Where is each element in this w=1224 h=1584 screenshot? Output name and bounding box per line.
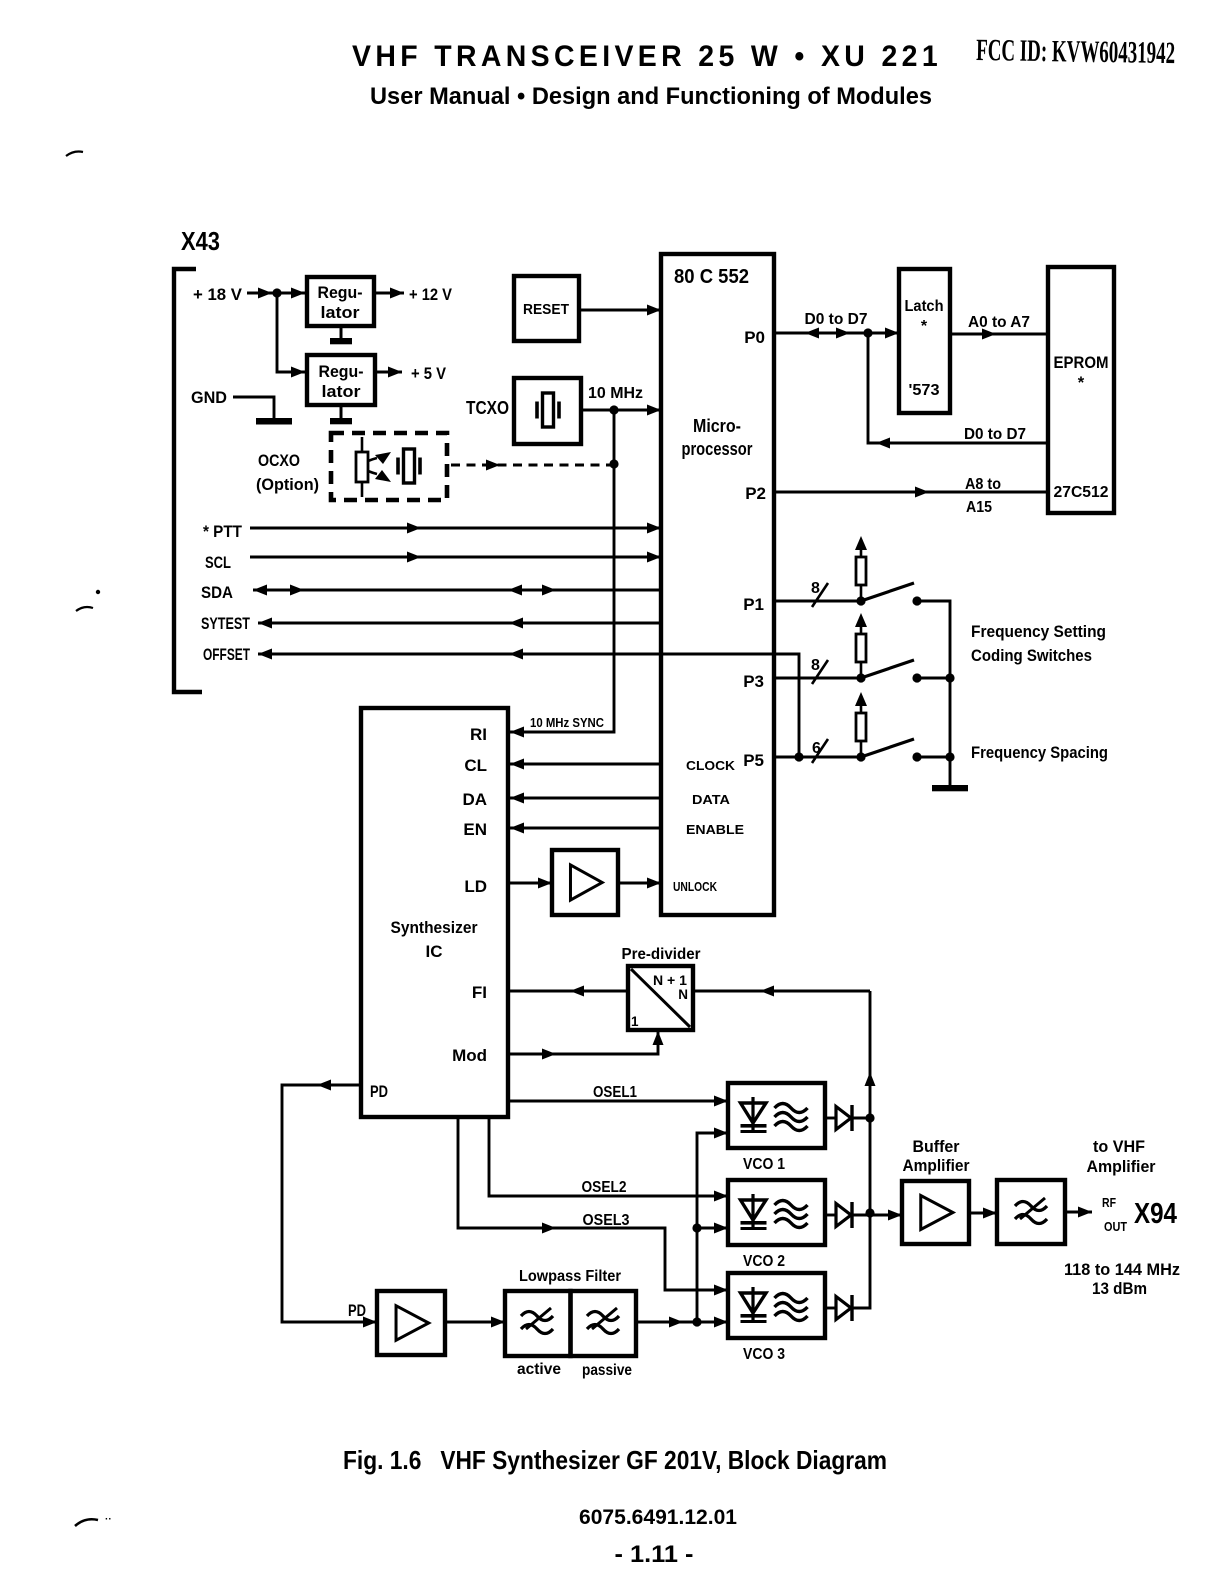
wire pre-divider to FI — [508, 990, 628, 993]
wire OFFSET to P5 — [258, 654, 799, 757]
node J10 common-P5 junction — [945, 752, 954, 761]
svg-text:IC: IC — [426, 942, 443, 961]
wire 10 MHz SYNC — [510, 410, 614, 732]
node J11 tuning junction VCO3 — [692, 1317, 701, 1326]
buffer amplifier U10 box — [902, 1181, 969, 1244]
diode D3 — [825, 1307, 836, 1310]
svg-text:Fig. 1.6 VHF Synthesizer GF: Fig. 1.6 VHF Synthesizer GF 201V, Block … — [343, 1445, 887, 1475]
OCXO crystal Y2 — [404, 449, 415, 483]
TCXO crystal Y1 — [543, 393, 554, 427]
wire SDA bidirectional — [253, 589, 661, 592]
lowpass filter passive box — [571, 1291, 637, 1356]
ground under regulator U3 — [340, 405, 343, 418]
svg-text:VCO 3: VCO 3 — [743, 1346, 785, 1363]
svg-text:- 1.11 -: - 1.11 - — [615, 1541, 694, 1568]
svg-text:VCO 1: VCO 1 — [743, 1156, 785, 1173]
TCXO box — [514, 378, 581, 444]
svg-text:Micro-: Micro- — [693, 415, 741, 436]
svg-text:* PTT: * PTT — [203, 522, 243, 541]
svg-text:lator: lator — [322, 382, 361, 401]
svg-text:SDA: SDA — [201, 583, 233, 602]
scan speck mid-left — [76, 607, 93, 611]
wire DATA to DA — [510, 797, 661, 800]
wire PD amp to lowpass — [445, 1321, 505, 1324]
microprocessor U1 80C552 box — [661, 254, 774, 915]
scan speck bottom-left — [75, 1519, 98, 1526]
svg-text:FI: FI — [472, 983, 487, 1002]
OCXO heater element — [361, 437, 364, 452]
latch U4 box — [899, 269, 950, 413]
wire buffer to output filter — [969, 1212, 997, 1215]
wire P1 bus — [774, 600, 861, 603]
lowpass filter active box — [505, 1291, 571, 1356]
wire P5 bus — [774, 756, 861, 759]
svg-text:RESET: RESET — [523, 301, 569, 318]
svg-text:13 dBm: 13 dBm — [1092, 1279, 1147, 1298]
svg-text:OSEL3: OSEL3 — [583, 1212, 630, 1229]
svg-text:Synthesizer: Synthesizer — [391, 918, 478, 937]
svg-text:Regu-: Regu- — [318, 283, 363, 302]
node J7 P3 junction — [856, 673, 865, 682]
regulator U3 (+5V) — [307, 355, 375, 405]
svg-text:passive: passive — [582, 1362, 632, 1379]
node J14 VCO output junction — [865, 1208, 874, 1217]
svg-text:Latch: Latch — [905, 298, 944, 315]
node J5 OFFSET-P5 junction — [794, 752, 803, 761]
svg-text:SYTEST: SYTEST — [201, 614, 250, 633]
svg-text:OUT: OUT — [1104, 1220, 1127, 1234]
svg-text:Mod: Mod — [452, 1046, 487, 1065]
node J3 10MHz junction — [609, 405, 618, 414]
node J9 P5 junction — [856, 752, 865, 761]
svg-text:D0 to D7: D0 to D7 — [805, 311, 868, 328]
svg-text:CLOCK: CLOCK — [686, 758, 736, 773]
svg-text:D0 to D7: D0 to D7 — [964, 426, 1026, 443]
svg-text:TCXO: TCXO — [466, 398, 509, 418]
svg-text:LD: LD — [464, 877, 487, 896]
svg-text:CL: CL — [464, 756, 487, 775]
ground under regulator U2 — [340, 326, 343, 338]
resistor R2 pull-up — [855, 613, 867, 627]
svg-text:SCL: SCL — [205, 553, 231, 572]
svg-text:X43: X43 — [181, 226, 220, 256]
VCO1 varactor — [751, 1097, 754, 1130]
wire +18V to regulator U3 — [277, 293, 305, 372]
svg-text:to VHF: to VHF — [1093, 1137, 1145, 1156]
switch S1 — [861, 583, 914, 601]
svg-text:PD: PD — [348, 1301, 366, 1320]
svg-text:*: * — [921, 318, 928, 335]
svg-text:P3: P3 — [743, 672, 764, 691]
svg-text:27C512: 27C512 — [1054, 484, 1109, 501]
svg-text:EPROM: EPROM — [1054, 354, 1109, 372]
wire PD feedback — [282, 1085, 377, 1322]
svg-text:+ 5 V: + 5 V — [411, 364, 447, 383]
svg-text:ENABLE: ENABLE — [686, 822, 744, 837]
svg-text:VHF TRANSCEIVER 25 W • XU 221: VHF TRANSCEIVER 25 W • XU 221 — [352, 40, 942, 73]
svg-text:GND: GND — [191, 388, 227, 407]
switch S2 — [861, 660, 914, 678]
svg-text:FCC ID: KVW60431942: FCC ID: KVW60431942 — [976, 32, 1176, 70]
bus width 6 marker P5 — [812, 739, 828, 763]
svg-text:UNLOCK: UNLOCK — [673, 879, 717, 894]
svg-text:8: 8 — [811, 580, 820, 597]
svg-text:+ 18 V: + 18 V — [193, 285, 243, 304]
svg-text:Buffer: Buffer — [913, 1138, 961, 1156]
svg-text:118 to 144 MHz: 118 to 144 MHz — [1064, 1260, 1180, 1279]
wire SYTEST — [258, 622, 661, 625]
RESET box — [514, 276, 579, 341]
svg-text:RF: RF — [1102, 1196, 1116, 1210]
wire +18V to regulators — [247, 292, 307, 295]
wire VCO bus to divider vertical — [869, 991, 872, 1213]
pre-divider diagonal — [631, 969, 690, 1027]
wire D0-D7 EPROM to P0 — [868, 333, 1048, 443]
svg-text:EN: EN — [463, 820, 487, 839]
ground switches common — [932, 785, 968, 791]
svg-text:80 C 552: 80 C 552 — [674, 265, 749, 288]
svg-text:Regu-: Regu- — [319, 362, 364, 381]
resistor R1 pull-up — [855, 536, 867, 550]
VCO3 box — [728, 1273, 825, 1338]
VCO1 coil waves — [775, 1104, 808, 1113]
node J4 data bus junction — [863, 328, 872, 337]
svg-text:active: active — [517, 1361, 561, 1378]
VCO3 varactor — [751, 1287, 754, 1320]
wire P3 bus — [774, 677, 861, 680]
wire tuning bus vertical — [697, 1133, 728, 1322]
wire RF OUT — [1065, 1211, 1092, 1214]
wire P0 data bus — [774, 332, 899, 335]
VCO2 box — [728, 1180, 825, 1245]
diode D1 — [825, 1117, 836, 1120]
wire OCXO dashed output — [451, 464, 610, 467]
node J8 common-P3 junction — [945, 673, 954, 682]
node J6 P1 junction — [856, 596, 865, 605]
svg-text:Pre-divider: Pre-divider — [622, 946, 701, 963]
node J1 +18V junction — [272, 288, 281, 297]
regulator U2 (+12V) — [307, 277, 374, 326]
svg-text:*: * — [1078, 374, 1085, 392]
svg-text:OFFSET: OFFSET — [203, 645, 250, 664]
output filter FL1 box — [997, 1180, 1065, 1244]
connector X43 bracket — [174, 269, 202, 692]
wire GND — [233, 397, 274, 418]
wire RESET to microprocessor — [579, 309, 661, 312]
wire +5V output — [375, 371, 402, 374]
svg-text:Lowpass Filter: Lowpass Filter — [519, 1268, 621, 1285]
svg-text:A15: A15 — [966, 499, 992, 516]
wire A0-A7 latch to EPROM — [950, 333, 1048, 336]
node J12 tuning junction VCO2 — [692, 1223, 701, 1232]
wire SCL — [250, 556, 661, 559]
svg-text:(Option): (Option) — [256, 475, 319, 494]
wire VCO2 output — [852, 1214, 902, 1217]
svg-text:VCO 2: VCO 2 — [743, 1253, 785, 1270]
wire VCO3 output — [852, 1213, 870, 1308]
wire P2 address bus A8-A15 — [774, 491, 1048, 494]
svg-text:A8 to: A8 to — [965, 476, 1001, 493]
svg-text:6075.6491.12.01: 6075.6491.12.01 — [579, 1506, 737, 1529]
svg-text:PD: PD — [370, 1082, 388, 1101]
svg-text:DA: DA — [462, 790, 487, 809]
svg-text:··: ·· — [105, 1514, 112, 1525]
svg-text:OCXO: OCXO — [258, 451, 300, 470]
switch S3 — [861, 739, 914, 757]
OCXO dashed box — [331, 433, 447, 500]
wire VCO bus to pre-divider — [693, 990, 870, 993]
svg-text:Frequency Spacing: Frequency Spacing — [971, 743, 1108, 762]
svg-text:N: N — [678, 987, 688, 1002]
buffer U7 lock detect box — [552, 850, 618, 915]
svg-text:P0: P0 — [744, 328, 765, 347]
svg-text:A0 to A7: A0 to A7 — [968, 314, 1030, 331]
wire OSEL3 — [458, 1117, 728, 1290]
svg-text:User Manual • Design and Funct: User Manual • Design and Functioning of … — [370, 83, 932, 110]
bus width 8 marker P1 — [812, 583, 828, 607]
wire S3 to common — [917, 756, 950, 759]
svg-text:Amplifier: Amplifier — [1087, 1157, 1156, 1176]
svg-text:1: 1 — [631, 1014, 639, 1029]
VCO2 coil waves — [775, 1201, 808, 1210]
wire tuning branch VCO2 — [697, 1227, 728, 1230]
OCXO heater arrows — [368, 458, 377, 461]
wire +12V output — [374, 292, 404, 295]
svg-text:+ 12 V: + 12 V — [409, 285, 453, 304]
svg-text:10 MHz: 10 MHz — [588, 385, 643, 402]
svg-text:P5: P5 — [743, 751, 764, 770]
svg-text:10 MHz SYNC: 10 MHz SYNC — [530, 716, 604, 730]
svg-text:DATA: DATA — [692, 792, 731, 807]
diode D2 — [825, 1214, 836, 1217]
ground GND symbol — [256, 418, 292, 425]
wire OSEL1 — [508, 1100, 728, 1103]
resistor R3 pull-up — [855, 692, 867, 706]
wire tuning voltage to VCO3 — [636, 1321, 728, 1324]
svg-text:Coding Switches: Coding Switches — [971, 646, 1092, 665]
wire S1 to common — [917, 601, 950, 678]
wire VCO1 output — [852, 1117, 870, 1120]
svg-text:Amplifier: Amplifier — [903, 1157, 971, 1175]
svg-text:OSEL2: OSEL2 — [582, 1179, 627, 1196]
svg-text:processor: processor — [682, 438, 753, 459]
wire CLOCK to CL — [510, 763, 661, 766]
wire LD to buffer — [508, 882, 552, 885]
wire 10 MHz to microprocessor — [581, 409, 661, 412]
wire buffer to UNLOCK — [618, 882, 661, 885]
node J13 VCO1 output junction — [865, 1113, 874, 1122]
bus width 8 marker P3 — [812, 660, 828, 684]
PD amplifier U9 box — [377, 1291, 445, 1355]
svg-text:N + 1: N + 1 — [653, 973, 687, 988]
VCO2 varactor — [751, 1194, 754, 1227]
wire Mod to pre-divider — [508, 1031, 658, 1054]
svg-text:lator: lator — [321, 303, 360, 322]
svg-text:Frequency Setting: Frequency Setting — [971, 622, 1106, 641]
svg-text:P1: P1 — [743, 595, 764, 614]
wire OSEL2 — [489, 1117, 728, 1196]
svg-text:P2: P2 — [745, 484, 766, 503]
svg-text:X94: X94 — [1134, 1198, 1177, 1230]
VCO3 coil waves — [775, 1294, 808, 1303]
wire S2 to common — [917, 677, 950, 680]
scan speck top-left — [66, 152, 83, 157]
svg-text:'573: '573 — [909, 382, 940, 399]
pre-divider U8 box — [628, 966, 693, 1030]
wire common to ground — [949, 678, 952, 785]
EPROM U5 box — [1048, 267, 1114, 513]
synthesizer IC U6 box — [361, 708, 508, 1117]
svg-text:6: 6 — [812, 740, 821, 757]
svg-text:OSEL1: OSEL1 — [593, 1084, 637, 1101]
svg-text:8: 8 — [811, 657, 820, 674]
wire PTT — [250, 527, 661, 530]
node J2 sync junction — [609, 459, 618, 468]
wire ENABLE to EN — [510, 827, 661, 830]
VCO1 box — [728, 1083, 825, 1148]
svg-text:RI: RI — [470, 725, 487, 744]
